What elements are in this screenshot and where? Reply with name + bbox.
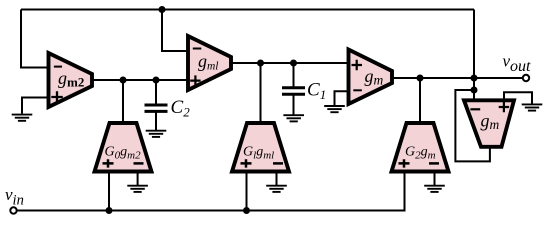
gm1 plus sign	[190, 75, 200, 85]
wire: gm2 + input to ground	[22, 98, 49, 114]
ground at gm - input	[324, 106, 345, 112]
wire: branch to gm1 inverting input	[162, 10, 188, 52]
terminal vin	[10, 207, 16, 213]
ground under G2gm - input	[424, 186, 445, 192]
node: gm1 out / G1	[257, 60, 264, 67]
op-amp U1 gm2	[49, 53, 93, 107]
op-amp U4 fb gm (unity resistor)	[464, 100, 514, 147]
fb gm plus sign	[499, 102, 509, 112]
op-amp U3 gm	[349, 50, 393, 105]
ground at fb amp + input	[522, 104, 543, 110]
ground under G0gm2 - input	[127, 186, 148, 192]
ground at gm2 + input	[12, 115, 33, 121]
transconductor G0gm2	[95, 123, 152, 172]
transconductor G2gm	[392, 123, 449, 172]
wire: G0gm2 - input stub	[137, 172, 139, 186]
wire: G1gm1 - input stub	[276, 172, 278, 186]
wire: G1gm1 + input	[246, 172, 248, 211]
fb gm minus sign	[470, 108, 480, 110]
wire: right vertical from top line to fb amp	[473, 10, 475, 101]
wire: gm output to vout terminal	[392, 77, 523, 79]
wire: C2 stem lower	[155, 113, 157, 131]
op-amp U2 gm1	[188, 36, 231, 90]
wire: down to G0gm2 output	[122, 80, 124, 123]
node: fb loop junction	[471, 87, 478, 94]
capacitor C1	[282, 88, 305, 94]
G0gm2 plus sign	[103, 159, 114, 167]
gm1 minus sign	[193, 48, 202, 50]
gm2 plus sign	[51, 91, 63, 102]
transconductor G1gm1	[232, 123, 289, 172]
wire: C1 stem upper	[293, 63, 295, 87]
node: gm2 out / G0	[120, 77, 127, 84]
node: vout / right vertical	[471, 75, 478, 82]
G1gm1 minus sign	[273, 162, 283, 165]
G0gm2 minus sign	[134, 162, 144, 165]
wire: down to G1gm1 output	[260, 63, 262, 123]
terminal vout	[523, 75, 529, 81]
wire: G0gm2 + input	[108, 172, 110, 211]
node: junction top line / gm1 branch	[159, 6, 166, 13]
ground under C2	[146, 131, 167, 137]
G2gm plus sign	[399, 159, 410, 167]
wire: vin bus	[17, 172, 405, 211]
wire: feedback loop around unity gm	[455, 90, 490, 161]
node: gm1 out / C1	[290, 60, 297, 67]
wire: G2gm - input stub	[434, 172, 436, 186]
node: gm out / G2	[417, 75, 424, 82]
wire: gm2 output to gm1 + input	[92, 79, 188, 81]
wire: C1 stem lower	[293, 96, 295, 115]
wire: top feedback line	[21, 9, 474, 11]
gm2 minus sign	[54, 66, 62, 68]
node: gm2 out / C2	[153, 77, 160, 84]
node: vin bus / G1	[243, 207, 250, 214]
ground under G1gm1 - input	[266, 186, 287, 192]
gm minus sign	[353, 89, 362, 91]
wire: gm1 output to gm + input	[231, 62, 349, 64]
ground under C1	[283, 115, 304, 121]
wire: C2 stem upper	[155, 80, 157, 104]
wire: gm - input to ground	[335, 91, 349, 105]
wire: fb amp + input to ground	[504, 92, 532, 103]
node: vin bus / G0	[106, 207, 113, 214]
wire: down to G2gm output	[419, 78, 421, 123]
capacitor C2	[145, 105, 168, 111]
wire: left vertical to gm2 inverting input	[21, 10, 49, 68]
G1gm1 plus sign	[241, 159, 252, 167]
G2gm minus sign	[429, 162, 439, 165]
gm plus sign	[352, 60, 363, 70]
